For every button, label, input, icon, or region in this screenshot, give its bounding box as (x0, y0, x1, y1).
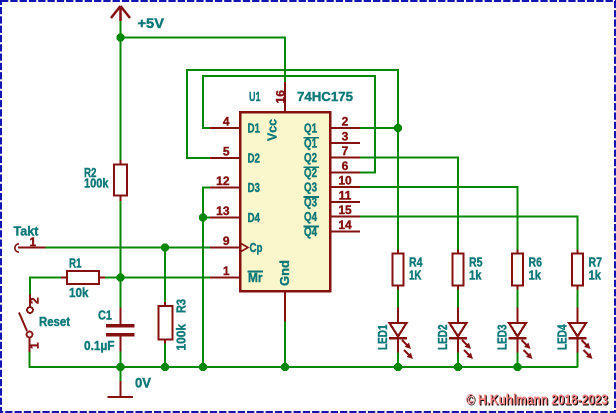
svg-text:1k: 1k (529, 269, 542, 283)
LED LED3 (509, 308, 533, 360)
resistor R4 (393, 250, 404, 290)
svg-text:R4: R4 (409, 256, 423, 270)
junction rail R3 (161, 363, 170, 372)
svg-text:1k: 1k (589, 269, 602, 283)
wire Mr node to Mr pin (120, 277, 210, 279)
junction Mr node (116, 273, 125, 282)
pin 13 D4 (left) (210, 204, 240, 218)
svg-text:1: 1 (30, 235, 37, 249)
wire +5V horizontal to Vcc (120, 37, 286, 39)
wire +5V vertical to R2 (120, 21, 122, 160)
svg-text:LED2: LED2 (436, 324, 450, 350)
svg-text:1: 1 (28, 342, 42, 349)
capacitor C1 (106, 308, 135, 352)
switch S1 Reset (19, 295, 33, 353)
svg-text:R5: R5 (469, 256, 483, 270)
svg-text:LED1: LED1 (376, 324, 390, 350)
svg-text:0V: 0V (135, 376, 151, 391)
wire Mr node down to C1 (120, 278, 122, 308)
junction rail LED2 (454, 363, 463, 372)
pin 2 Q1 (right) (330, 115, 360, 129)
svg-text:9: 9 (223, 234, 230, 248)
LED LED4 (569, 308, 593, 360)
pin 11 Q3-bar (right) (330, 189, 360, 203)
pin label Q1-bar (304, 136, 320, 150)
wire Mr node to R1 (105, 277, 121, 279)
svg-text:Q2: Q2 (304, 151, 317, 165)
pin label Q4-bar (304, 225, 320, 239)
resistor R2 (114, 160, 127, 201)
pin 12 D3 (left) (210, 174, 240, 188)
junction rail C1 (116, 363, 125, 372)
svg-text:R7: R7 (589, 256, 603, 270)
wire LED3 to rail (517, 353, 519, 368)
resistor R7 (572, 250, 583, 290)
wire Takt to Cp (46, 247, 211, 249)
svg-text:100k: 100k (84, 177, 109, 191)
svg-text:LED4: LED4 (556, 324, 570, 350)
svg-text:16: 16 (274, 90, 288, 104)
svg-text:Mr: Mr (248, 271, 263, 285)
svg-text:2: 2 (28, 297, 42, 304)
svg-text:R3: R3 (175, 299, 189, 313)
pin 16 Vcc stub (284, 82, 286, 112)
wire LED2 to rail (457, 353, 459, 368)
copyright text (466, 392, 609, 410)
svg-text:© H.Kuhlmann 2018-2023: © H.Kuhlmann 2018-2023 (466, 392, 608, 409)
junction D4 tie (199, 213, 208, 222)
junction rail D3D4 tie (199, 363, 208, 372)
svg-text:C1: C1 (98, 309, 112, 323)
wire feedback Q2-bar to D1 (inner loop) (203, 76, 375, 172)
svg-text:11: 11 (339, 189, 352, 203)
pin label Q2 (304, 151, 317, 165)
svg-text:Reset: Reset (39, 315, 71, 329)
pin label Q1 (304, 122, 317, 136)
wire R2 bottom to Mr node (120, 201, 122, 278)
svg-text:13: 13 (216, 204, 230, 218)
svg-text:D1: D1 (248, 122, 261, 136)
svg-text:5: 5 (223, 145, 230, 159)
pin 5 D2 (left) (210, 145, 240, 159)
connector pin Takt (15, 244, 46, 252)
wire feedback Q1 to D2 (outer loop) (187, 70, 398, 158)
wire Q4 to R7 (360, 217, 578, 254)
wire switch to ground rail (29, 352, 31, 368)
svg-text:1k: 1k (469, 269, 482, 283)
wire R1 left to switch (30, 278, 61, 295)
resistor R5 (453, 250, 464, 290)
junction rail LED3 (513, 363, 522, 372)
svg-text:+5V: +5V (138, 16, 165, 31)
junction rail LED1 (394, 363, 403, 372)
pin label Q3 (304, 181, 317, 195)
wire C1 bottom to rail (120, 352, 122, 368)
pin 15 Q4 (right) (330, 203, 360, 217)
wire R6 to LED3 (517, 290, 519, 308)
svg-text:Q4: Q4 (304, 210, 317, 224)
pin 3 Q1-bar (right) (330, 129, 360, 143)
svg-text:15: 15 (338, 203, 352, 217)
pin label Q4 (304, 210, 317, 224)
svg-text:1: 1 (223, 264, 230, 278)
pin 14 Q4-bar (right) (330, 218, 360, 232)
svg-text:10: 10 (338, 174, 352, 188)
junction Takt/R3 (161, 243, 170, 252)
svg-text:Q3: Q3 (304, 181, 317, 195)
wire Q2 to R5 (360, 158, 458, 254)
power symbol +5V arrow (111, 6, 130, 21)
svg-text:D2: D2 (248, 152, 261, 166)
svg-text:Vcc: Vcc (266, 119, 280, 141)
svg-text:Q1: Q1 (304, 122, 317, 136)
svg-text:7: 7 (342, 144, 349, 158)
wire R4 to LED1 (397, 290, 399, 308)
wire R7 to LED4 (577, 290, 579, 308)
svg-text:R1: R1 (69, 257, 82, 271)
svg-text:100k: 100k (175, 324, 189, 351)
svg-text:12: 12 (216, 174, 230, 188)
pin 8 Gnd stub (284, 291, 286, 322)
wire Q1 to R4 (360, 127, 398, 129)
svg-text:R6: R6 (529, 256, 543, 270)
svg-text:Cp: Cp (250, 241, 263, 255)
svg-text:2: 2 (342, 115, 349, 129)
svg-text:14: 14 (338, 218, 352, 232)
svg-text:10k: 10k (69, 286, 89, 300)
wire D4 stub (203, 217, 210, 219)
svg-text:U1: U1 (249, 89, 261, 104)
svg-text:0.1µF: 0.1µF (84, 339, 115, 353)
pin label Mr with overline (248, 271, 264, 285)
wire Vcc drop vertical (284, 37, 286, 83)
svg-text:D4: D4 (248, 211, 261, 225)
pin 6 Q2-bar (right) (330, 159, 360, 173)
wire Q3 to R6 (360, 187, 518, 253)
wire Gnd pin to rail (284, 322, 286, 368)
pin 1 Mr (left) (210, 264, 240, 278)
junction Q1 node (394, 124, 403, 133)
pin 10 Q3 (right) (330, 174, 360, 188)
wire Q1 node down to R4 (397, 128, 399, 254)
resistor R6 (512, 250, 523, 290)
svg-text:4: 4 (223, 115, 230, 129)
svg-text:LED3: LED3 (496, 324, 510, 350)
svg-text:Gnd: Gnd (278, 260, 292, 286)
pin 7 Q2 (right) (330, 144, 360, 158)
wire ground rail 0V (30, 366, 578, 368)
op IC U1 74HC175 body (240, 112, 330, 291)
svg-text:1K: 1K (409, 269, 422, 283)
resistor R1 (61, 271, 105, 284)
junction rail IC Gnd (281, 363, 290, 372)
wire LED4 to rail (577, 353, 579, 368)
wire R3 bottom to rail (164, 344, 166, 368)
wire R5 to LED2 (457, 290, 459, 308)
ground symbol 0V (108, 367, 134, 397)
junction +5V node (116, 33, 125, 42)
wire R3 top (164, 248, 166, 303)
pin 4 D1 (left) (210, 115, 240, 129)
svg-text:6: 6 (342, 159, 349, 173)
svg-text:74HC175: 74HC175 (297, 89, 353, 104)
svg-text:D3: D3 (248, 181, 261, 195)
clock mark Cp (241, 244, 248, 252)
wire LED1 to rail (397, 353, 399, 368)
LED LED1 (389, 308, 413, 360)
pin label Q2-bar (304, 166, 320, 180)
resistor R3 (159, 302, 173, 344)
LED LED2 (449, 308, 473, 360)
pin label Q3-bar (304, 196, 320, 210)
wire D3 D4 tie to ground (203, 188, 210, 368)
svg-text:3: 3 (342, 129, 349, 143)
pin 9 Cp (left) (210, 234, 240, 248)
